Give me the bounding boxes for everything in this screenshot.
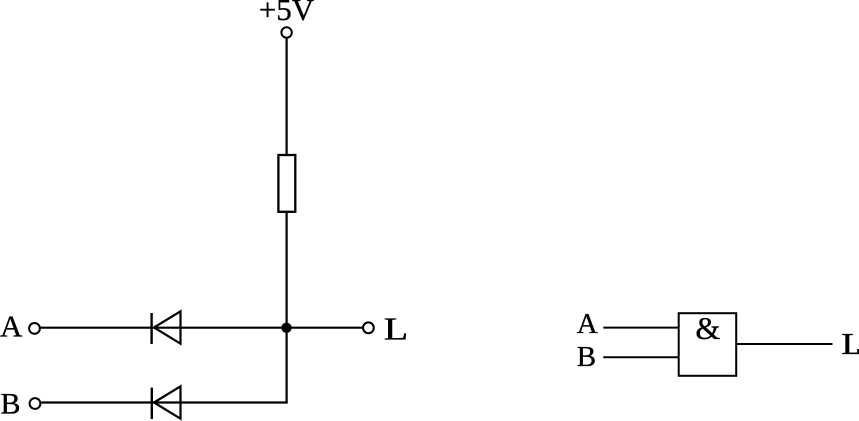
terminal B <box>30 398 41 409</box>
wire from +5V terminal to resistor <box>286 38 288 155</box>
label B left <box>1 388 21 421</box>
svg-text:A: A <box>577 308 598 340</box>
wire input A to gate <box>603 327 679 329</box>
label A left <box>0 309 23 344</box>
svg-text:A: A <box>0 309 23 344</box>
diode D1 cathode bar <box>150 313 152 344</box>
label ampersand <box>695 310 720 346</box>
diode D2 cathode bar <box>151 388 153 419</box>
label A right <box>577 308 598 340</box>
svg-text:L: L <box>384 311 408 346</box>
diode D1 triangle <box>154 311 181 343</box>
label L right circuit <box>841 327 859 361</box>
svg-text:B: B <box>1 388 21 421</box>
diode D2 triangle <box>154 386 181 418</box>
svg-text:L: L <box>841 327 859 361</box>
wire input B to gate <box>603 356 679 358</box>
power terminal <box>281 27 291 37</box>
wire from resistor to node and down to B branch corner <box>286 212 288 403</box>
wire gate output <box>736 343 833 345</box>
svg-text:&: & <box>695 310 720 346</box>
AND gate box U1 <box>679 313 737 376</box>
svg-text:B: B <box>577 341 596 373</box>
terminal L <box>363 322 374 333</box>
terminal A <box>29 323 40 334</box>
label +5V <box>259 0 315 27</box>
wire B input line through diode to corner <box>41 401 287 403</box>
node junction dot <box>281 323 291 333</box>
label L left circuit <box>384 311 408 346</box>
label B right <box>577 341 596 373</box>
wire A input line through diode to node and to L terminal <box>41 327 363 329</box>
svg-text:+5V: +5V <box>259 0 315 27</box>
resistor R <box>278 155 295 212</box>
period after L <box>857 349 859 354</box>
